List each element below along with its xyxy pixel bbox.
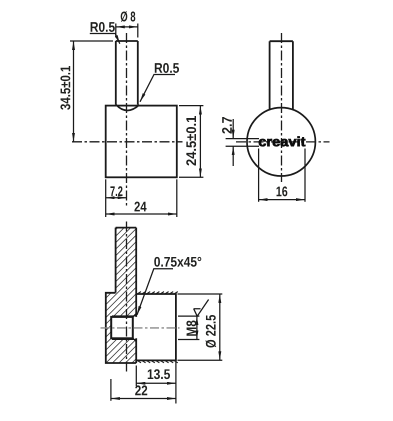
dimension 24.5±0.1 line [199, 106, 201, 178]
section body serration ticks bottom [137, 360, 178, 363]
dimension 2.7 text [222, 117, 232, 134]
dimension Ø22.5 text [206, 315, 217, 348]
front view stem outline [116, 41, 138, 105]
side view stem outline [270, 41, 293, 109]
section stem outline [116, 228, 137, 317]
section horizontal centerline [101, 327, 180, 329]
dimension 22 text [135, 385, 147, 395]
dimension 34.5±0.1 line [73, 41, 75, 142]
dimension 13.5 text [148, 369, 170, 379]
section body serration ticks top [137, 292, 178, 295]
creavit logo [259, 136, 305, 146]
section flange outline [106, 293, 136, 363]
dimension 7.2 extension line [105, 179, 107, 217]
dimension 7.2 line [106, 197, 127, 199]
dimension Ø8 text [121, 11, 136, 22]
front view horizontal centerline [72, 141, 183, 143]
section vertical centerline [126, 222, 128, 373]
dimension 2.7 line with outside arrows [232, 119, 234, 139]
section body outline [136, 294, 176, 360]
dimension 13.5 extension lines [136, 362, 176, 404]
dimension 24 extension line right [176, 179, 178, 217]
dimension M8 line [196, 316, 198, 339]
dimension 24 text [134, 202, 146, 212]
label R0.5 right leader [140, 75, 175, 102]
dimension 2.7 extension lines [226, 139, 259, 147]
dimension M8 extension lines [178, 316, 199, 339]
dimension 7.2 text [110, 186, 122, 196]
dimension Ø22.5 line [219, 294, 221, 360]
side view circle [247, 108, 315, 176]
section hatched area stem and flange [106, 228, 136, 363]
front view vertical centerline [126, 33, 128, 206]
front view fillet arc at stem base [116, 105, 140, 111]
dimension 24.5±0.1 extension lines [179, 106, 203, 178]
dimension 22 extension line [110, 379, 112, 401]
dimension M8 text [186, 320, 196, 335]
surface finish symbol [194, 300, 209, 317]
side view horizontal centerline [236, 141, 330, 143]
label R0.5 right text [155, 63, 179, 73]
label R0.5 top-left leader [90, 34, 120, 44]
front view body outline [106, 106, 177, 178]
dimension 24 line [106, 213, 177, 215]
label 0.75x45 text [154, 257, 201, 267]
side view vertical centerline [281, 33, 283, 182]
dimension 13.5 line [136, 382, 176, 384]
dimension Ø8 line [116, 26, 138, 28]
dimension 16 line [259, 199, 305, 201]
dimension 22 line [111, 398, 176, 400]
dimension 34.5±0.1 text [60, 66, 70, 110]
label R0.5 top-left text [91, 22, 115, 32]
dimension Ø22.5 extension lines [178, 294, 223, 360]
label 0.75x45 leader [137, 269, 173, 315]
dimension 24.5±0.1 text [186, 116, 196, 166]
dimension 34.5±0.1 extension line [70, 40, 113, 42]
dimension 16 extension lines [259, 149, 305, 202]
section threaded hole M8 [111, 314, 136, 342]
dimension Ø8 extension lines [116, 24, 138, 38]
dimension 16 text [277, 186, 288, 196]
